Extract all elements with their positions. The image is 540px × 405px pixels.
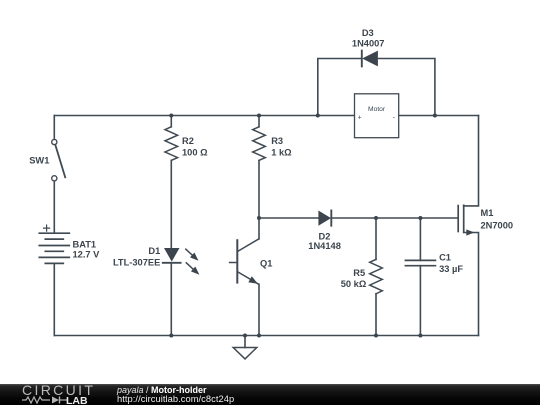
CircuitLab logo (22, 384, 102, 405)
junction D3 left branch (316, 114, 320, 118)
svg-text:BAT1: BAT1 (73, 240, 97, 250)
wire left rail lower (BAT1 to bottom rail) (53, 263, 55, 335)
svg-text:SW1: SW1 (29, 156, 49, 166)
diode D2 (318, 211, 331, 226)
svg-text:33 µF: 33 µF (439, 264, 463, 274)
wire D3 left branch (318, 59, 362, 116)
wire top rail left segment (54, 115, 354, 117)
svg-text:R2: R2 (182, 136, 194, 146)
capacitor C1 (405, 218, 435, 336)
footer bar (0, 384, 540, 405)
junction Q1 emitter bottom rail (257, 334, 261, 338)
svg-text:D3: D3 (362, 28, 374, 38)
svg-text:Q1: Q1 (260, 258, 272, 268)
svg-text:100 Ω: 100 Ω (182, 148, 208, 158)
junction R5 bottom rail (374, 334, 378, 338)
junction D3 right branch (433, 114, 437, 118)
wire LED to bottom rail (170, 263, 172, 336)
label C1 value (439, 252, 463, 274)
label R2 value (182, 136, 208, 158)
svg-text:C1: C1 (439, 252, 451, 262)
transistor M1 (MOSFET) (458, 116, 478, 336)
battery BAT1 (39, 225, 69, 263)
label BAT1 value (73, 240, 101, 260)
svg-text:+: + (358, 114, 362, 121)
wire left rail middle (SW1 to BAT1) (53, 181, 55, 233)
junction R3 / Q1 collector node (257, 216, 261, 220)
label D3 value (352, 28, 385, 48)
wire D3 right branch (378, 59, 435, 116)
label R5 value (341, 268, 367, 289)
svg-text:LAB: LAB (66, 395, 88, 405)
wire bottom rail (54, 335, 478, 337)
junction R3 top rail (257, 114, 261, 118)
svg-text:Motor: Motor (368, 106, 386, 113)
svg-text:M1: M1 (481, 208, 494, 218)
svg-text:2N7000: 2N7000 (481, 220, 514, 230)
junction D1 bottom rail (169, 334, 173, 338)
switch SW1 (52, 139, 65, 181)
ground (233, 336, 257, 359)
svg-text:R3: R3 (271, 136, 283, 146)
label D2 value (308, 232, 341, 252)
junction ground node (243, 334, 247, 338)
resistor R5 (370, 218, 383, 336)
wire left rail upper (top rail to SW1) (53, 116, 55, 140)
diode D3 (362, 51, 378, 67)
wire top rail right segment (motor right to M1 drain corner) (399, 115, 479, 117)
svg-text:LTL-307EE: LTL-307EE (113, 257, 160, 267)
junction R5 top node (374, 216, 378, 220)
resistor R3 (253, 116, 266, 219)
motor box (355, 94, 399, 138)
label D1 value (113, 246, 160, 268)
wire D2 to M1 gate (331, 217, 458, 219)
svg-text:1 kΩ: 1 kΩ (271, 148, 292, 158)
LED D1 (163, 248, 200, 275)
resistor R2 (165, 116, 178, 249)
svg-text:D2: D2 (319, 232, 331, 242)
svg-text:1N4007: 1N4007 (352, 39, 385, 49)
svg-text:D1: D1 (148, 246, 160, 256)
label M1 value (481, 208, 514, 230)
wire node row (Q1 collector to D2) (259, 217, 318, 219)
svg-text:12.7 V: 12.7 V (73, 249, 101, 259)
footer text (117, 386, 234, 405)
svg-text:R5: R5 (353, 268, 365, 278)
transistor Q1 (230, 218, 259, 336)
label R3 value (271, 136, 292, 158)
svg-text:1N4148: 1N4148 (308, 241, 341, 251)
junction C1 top node (418, 216, 422, 220)
junction R2 top rail (169, 114, 173, 118)
svg-text:50 kΩ: 50 kΩ (341, 279, 367, 289)
junction C1 bottom rail (418, 334, 422, 338)
